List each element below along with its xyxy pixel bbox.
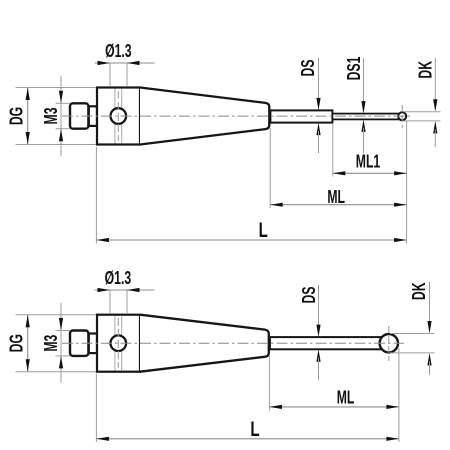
hole hidden wall left top (114, 89, 116, 144)
ball DK top (398, 112, 406, 120)
svg-text:L: L (259, 217, 268, 241)
svg-text:DG: DG (7, 334, 27, 352)
centerline bottom stylus axis (62, 342, 404, 344)
svg-text:ML: ML (337, 388, 355, 408)
svg-text:DS1: DS1 (345, 56, 365, 80)
dimension ML1 top: line (333, 172, 407, 174)
svg-text:DK: DK (416, 60, 436, 78)
svg-text:Ø1.3: Ø1.3 (105, 42, 132, 62)
dimension M3 bottom: line (60, 303, 62, 383)
dimension Ø1.3 top: right arrow (127, 61, 140, 65)
hole circle bottom (111, 335, 127, 351)
dimension DG top: line (27, 88, 29, 145)
dimension ML1 top: extension line (332, 124, 334, 177)
svg-text:M3: M3 (42, 335, 62, 352)
hole circle top (111, 108, 127, 124)
dimension DK bottom: extension lines (390, 333, 435, 335)
dimension DG bottom: extension lines (16, 314, 97, 316)
hole hidden wall left bottom (114, 316, 116, 371)
ball tip cross dash bottom (388, 326, 390, 361)
centerline top stylus axis (62, 115, 412, 117)
svg-text:DK: DK (410, 282, 430, 300)
svg-text:ML1: ML1 (356, 152, 381, 172)
dimension DS bottom: line and arrows (318, 285, 320, 329)
dimension ML bottom: line (269, 406, 399, 408)
dimension DK top: line and arrows (434, 58, 436, 104)
svg-text:DG: DG (7, 107, 27, 125)
dimension DS top: line and arrows (318, 58, 320, 102)
svg-text:Ø1.3: Ø1.3 (105, 269, 132, 289)
dimension L top: extension lines (95, 147, 97, 244)
hole vertical centerline bottom (117, 318, 119, 368)
thread step bottom (89, 334, 97, 354)
dimension DK top: extension lines (404, 111, 441, 113)
dimension ML top: extension line (269, 128, 271, 208)
dimension M3 top: extension ticks (56, 102, 71, 104)
holder body bottom (97, 315, 140, 372)
thread M3 top (70, 103, 88, 128)
dimension DK bottom: line and arrows (429, 282, 431, 326)
hole vertical centerline top (117, 91, 119, 141)
thread M3 bottom (70, 331, 88, 356)
dimension Ø1.3 top: left arrow (98, 61, 111, 65)
ball DK bottom (380, 334, 398, 352)
cone bottom (140, 315, 269, 372)
svg-text:L: L (250, 416, 259, 440)
dimension M3 bottom: extension ticks (56, 330, 71, 332)
svg-text:DS: DS (300, 287, 320, 304)
dimension Ø1.3 top: line (95, 62, 155, 64)
cone top (140, 88, 269, 145)
svg-text:DS: DS (299, 60, 319, 77)
dimension Ø1.3 bottom: extension lines (109, 291, 111, 314)
hole hidden wall right top (121, 89, 123, 144)
dimension Ø1.3 top: extension lines (109, 64, 111, 87)
dimension ML top: line (270, 204, 406, 206)
dimension M3 top: arrows outside (59, 91, 63, 104)
dimension DG top: arrows (26, 88, 30, 101)
dimension L bottom: extension lines (95, 374, 97, 442)
stem DS bottom (270, 337, 385, 349)
dimension DG top: extension lines (16, 87, 97, 89)
holder body top (97, 88, 140, 145)
svg-text:M3: M3 (42, 107, 62, 124)
dimension DS1 top: line and arrows (363, 58, 365, 105)
hole hidden wall right bottom (121, 316, 123, 371)
dimension L top: line (96, 239, 406, 241)
dimension DG bottom: line (27, 315, 29, 372)
dimension L bottom: line (96, 438, 399, 440)
stem DS top (270, 110, 332, 122)
ball tip cross dash top (401, 105, 403, 128)
stem DS1 top (332, 114, 401, 120)
dimension M3 top: line (60, 76, 62, 156)
thread step top (89, 106, 97, 126)
dimension Ø1.3 bottom: line (95, 289, 155, 291)
dimension ML bottom: extension line (268, 355, 270, 411)
